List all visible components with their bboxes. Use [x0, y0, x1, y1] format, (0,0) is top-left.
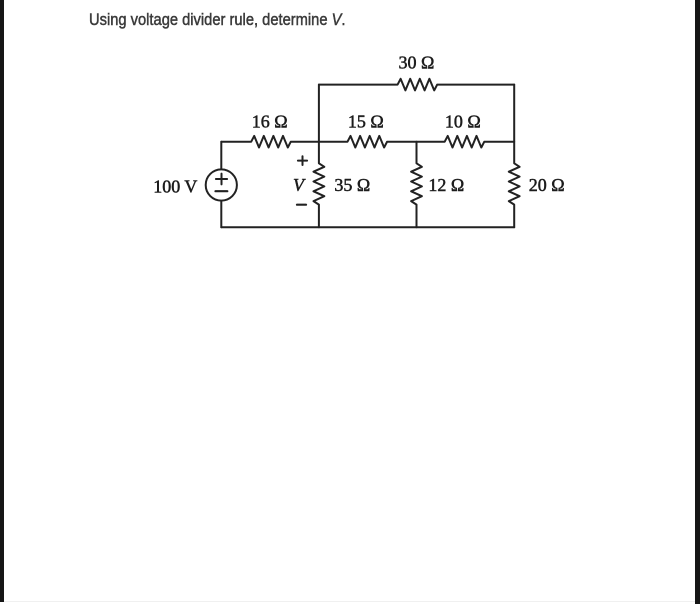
- svg-text:10 Ω: 10 Ω: [445, 111, 481, 131]
- svg-text:20 Ω: 20 Ω: [529, 175, 565, 195]
- svg-text:16 Ω: 16 Ω: [252, 111, 288, 131]
- svg-text:30 Ω: 30 Ω: [399, 53, 435, 73]
- svg-text:100 V: 100 V: [153, 177, 197, 197]
- svg-text:12 Ω: 12 Ω: [428, 175, 464, 195]
- svg-text:V: V: [293, 175, 306, 195]
- svg-text:35 Ω: 35 Ω: [334, 175, 370, 195]
- svg-text:15 Ω: 15 Ω: [348, 111, 384, 131]
